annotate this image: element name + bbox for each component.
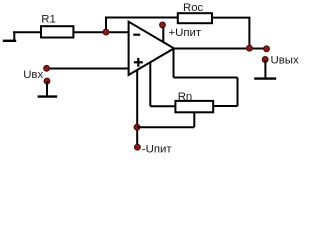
ground (38, 95, 58, 97)
wire (174, 48, 267, 50)
terminal Uvh (23, 69, 50, 84)
wire (105, 17, 178, 19)
wire (212, 17, 250, 19)
wire (73, 31, 128, 33)
wire (248, 18, 250, 49)
node (103, 29, 109, 35)
wire (46, 82, 48, 96)
resistor Roc (178, 13, 212, 23)
op-amp non-inverting input symbol (134, 58, 143, 67)
wire (193, 112, 195, 127)
resistor R1 (41, 26, 73, 37)
ground (254, 77, 276, 79)
svg-text:+Uпит: +Uпит (169, 27, 202, 39)
wire (237, 78, 239, 107)
wire (174, 77, 238, 79)
ground (3, 32, 16, 41)
wire (47, 68, 129, 70)
wire (150, 105, 175, 107)
wire (105, 18, 107, 33)
node (134, 124, 140, 130)
terminal -Upit (135, 144, 173, 156)
op-amp inverting input symbol (133, 34, 140, 36)
wire (136, 70, 138, 128)
node (264, 46, 270, 52)
svg-text:Uвых: Uвых (271, 55, 299, 67)
svg-text:Rn: Rn (178, 91, 193, 103)
wire (213, 105, 237, 107)
power +Upit (160, 22, 202, 42)
svg-text:Roc: Roc (183, 2, 204, 14)
wire (13, 31, 42, 33)
op-amp U1 (129, 22, 174, 75)
svg-text:-Uпит: -Uпит (142, 144, 173, 156)
node (44, 65, 50, 71)
wire (149, 62, 151, 106)
node (247, 45, 253, 51)
svg-text:Uвх: Uвх (23, 69, 43, 81)
svg-text:R1: R1 (41, 13, 56, 25)
resistor Rn (175, 101, 213, 112)
terminal Uvyh (262, 55, 299, 67)
wire (136, 127, 138, 145)
wire (173, 48, 175, 77)
wire (264, 60, 266, 77)
wire (137, 126, 194, 128)
